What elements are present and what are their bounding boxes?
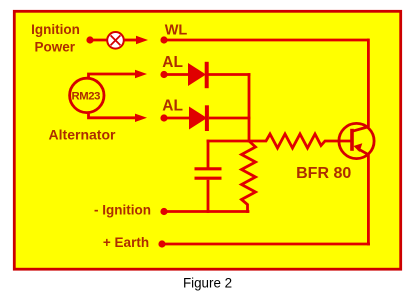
node dot earth <box>158 240 165 247</box>
node dot AL2 <box>160 114 167 121</box>
arrowhead into AL1 terminal <box>135 70 147 78</box>
svg-text:AL: AL <box>162 97 183 114</box>
wire AL1 to diode D1 <box>164 73 189 76</box>
lamp WL (circle with X) <box>107 32 124 49</box>
wire diode junction vertical <box>248 73 251 142</box>
transistor emitter stroke with arrow <box>358 149 369 155</box>
diode D1 <box>188 63 206 86</box>
wire WL horizontal <box>164 39 369 42</box>
svg-text:Ignition: Ignition <box>31 22 80 37</box>
wire ignition power to lamp <box>90 39 108 42</box>
svg-text:- Ignition: - Ignition <box>94 203 151 218</box>
wire WL down right side to collector <box>367 39 370 128</box>
svg-text:BFR 80: BFR 80 <box>296 165 351 182</box>
transistor collector stroke <box>352 127 369 132</box>
svg-text:+ Earth: + Earth <box>103 235 149 250</box>
wire lamp to arrow <box>124 39 137 42</box>
resistor R2 (horizontal zigzag to base) <box>249 134 351 148</box>
arrowhead into AL2 terminal <box>135 114 147 122</box>
svg-text:WL: WL <box>165 23 188 39</box>
svg-text:Power: Power <box>35 40 76 55</box>
svg-text:Figure 2: Figure 2 <box>183 275 232 290</box>
node dot AL1 <box>160 71 167 78</box>
node dot (ignition power terminal) <box>86 36 93 43</box>
transistor base bar <box>350 129 354 151</box>
capacitor C1 plates <box>195 167 222 170</box>
wire D2 cathode to junction <box>209 117 250 120</box>
label Ignition Power <box>31 22 80 55</box>
capacitor C1 lead bottom <box>207 180 210 213</box>
arrowhead into WL terminal <box>136 36 148 44</box>
wire earth rail <box>162 243 370 246</box>
wire emitter down to earth <box>367 154 370 245</box>
node dot WL <box>160 36 167 43</box>
wire node to capacitor <box>207 140 251 143</box>
diode D2 <box>189 107 207 130</box>
transistor Q1 BFR 80 <box>339 123 374 158</box>
svg-text:RM23: RM23 <box>72 91 101 103</box>
wire alternator top stub <box>89 74 137 80</box>
alternator symbol RM23 <box>70 78 104 112</box>
svg-text:AL: AL <box>162 54 183 71</box>
capacitor C1 lead top <box>207 140 210 168</box>
wire AL2 to diode D2 <box>164 117 190 120</box>
svg-text:Alternator: Alternator <box>49 127 116 143</box>
node dot ignition <box>160 208 167 215</box>
wire ignition rail <box>164 210 249 213</box>
wire D1 cathode to junction <box>208 73 250 76</box>
wire alternator bottom stub <box>89 112 137 118</box>
resistor R1 (vertical zigzag) <box>242 141 256 213</box>
